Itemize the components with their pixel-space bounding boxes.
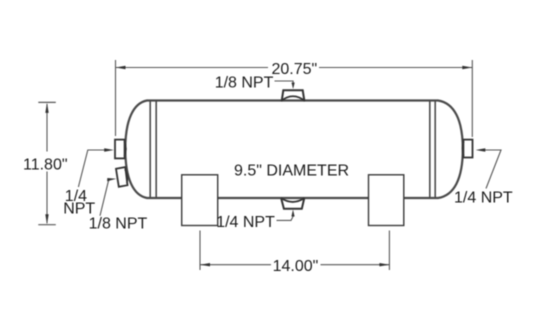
svg-text:20.75": 20.75" bbox=[272, 61, 318, 78]
dimension 20.75 extension line right bbox=[471, 60, 473, 137]
leader 1/8 NPT top bbox=[275, 81, 294, 86]
dimension 11.80 down arrow bbox=[45, 214, 48, 224]
dimension 11.80 bottom tick bbox=[38, 224, 56, 226]
left weld seam line 2 bbox=[155, 101, 157, 197]
tank body outline bbox=[125, 101, 463, 199]
dimension 20.75 line left segment bbox=[116, 67, 268, 69]
right port crescent bbox=[462, 141, 463, 156]
leader 1/4 NPT left arrow bbox=[104, 148, 114, 151]
leader 1/8 NPT left arrow bbox=[107, 178, 116, 181]
left upper port 1/4 NPT fitting bbox=[115, 140, 125, 159]
dimension 20.75 left arrow bbox=[116, 66, 126, 69]
leader 1/4 NPT bottom arrow bbox=[291, 210, 294, 217]
dimension 14.00 line right segment bbox=[321, 264, 390, 266]
dimension 14.00 right arrow bbox=[379, 263, 389, 266]
dimension 11.80 up arrow bbox=[45, 103, 48, 113]
top port boss arc bbox=[281, 96, 305, 101]
leader 1/8 NPT left bbox=[100, 180, 110, 216]
svg-text:9.5" DIAMETER: 9.5" DIAMETER bbox=[234, 163, 349, 180]
dimension 14.00 left arrow bbox=[200, 263, 210, 266]
left upper port crescent bbox=[124, 141, 126, 156]
svg-text:14.00": 14.00" bbox=[273, 258, 319, 275]
dimension 11.80 vertical line lower bbox=[46, 172, 48, 224]
leader 1/4 NPT left bbox=[78, 150, 111, 187]
right port 1/4 NPT fitting bbox=[463, 140, 472, 158]
dimension 20.75 extension line left bbox=[115, 60, 117, 136]
dimension 20.75 line right segment bbox=[319, 67, 472, 69]
left lower port 1/8 NPT fitting bbox=[116, 167, 128, 187]
bottom port boss arc bbox=[281, 198, 305, 202]
dimension 14.00 extension line right bbox=[388, 231, 390, 271]
svg-text:1/4 NPT: 1/4 NPT bbox=[216, 214, 275, 231]
svg-text:1/8 NPT: 1/8 NPT bbox=[89, 215, 148, 232]
svg-text:1/4 NPT: 1/4 NPT bbox=[454, 189, 513, 206]
top port 1/8 NPT fitting bbox=[282, 90, 305, 101]
left lower port crescent bbox=[125, 169, 128, 183]
right weld seam line 1 bbox=[429, 101, 431, 197]
leader 1/4 NPT right arrow bbox=[476, 148, 486, 151]
leader 1/4 NPT bottom bbox=[277, 213, 294, 221]
right mounting leg bbox=[369, 175, 404, 226]
dimension 11.80 vertical line upper bbox=[46, 104, 48, 152]
left mounting leg bbox=[182, 175, 218, 226]
svg-text:1/8 NPT: 1/8 NPT bbox=[215, 75, 274, 92]
left weld seam line 1 bbox=[149, 101, 151, 197]
right weld seam line 2 bbox=[434, 101, 436, 197]
dimension 20.75 right arrow bbox=[462, 66, 472, 69]
dimension 14.00 line left segment bbox=[200, 264, 271, 266]
leader 1/4 NPT right bbox=[480, 150, 502, 189]
svg-text:11.80": 11.80" bbox=[23, 157, 68, 174]
bottom port 1/4 NPT fitting bbox=[281, 198, 304, 208]
dimension 14.00 extension line left bbox=[199, 231, 201, 271]
dimension 11.80 top tick bbox=[38, 101, 56, 103]
leader 1/8 NPT top arrow bbox=[292, 83, 295, 90]
